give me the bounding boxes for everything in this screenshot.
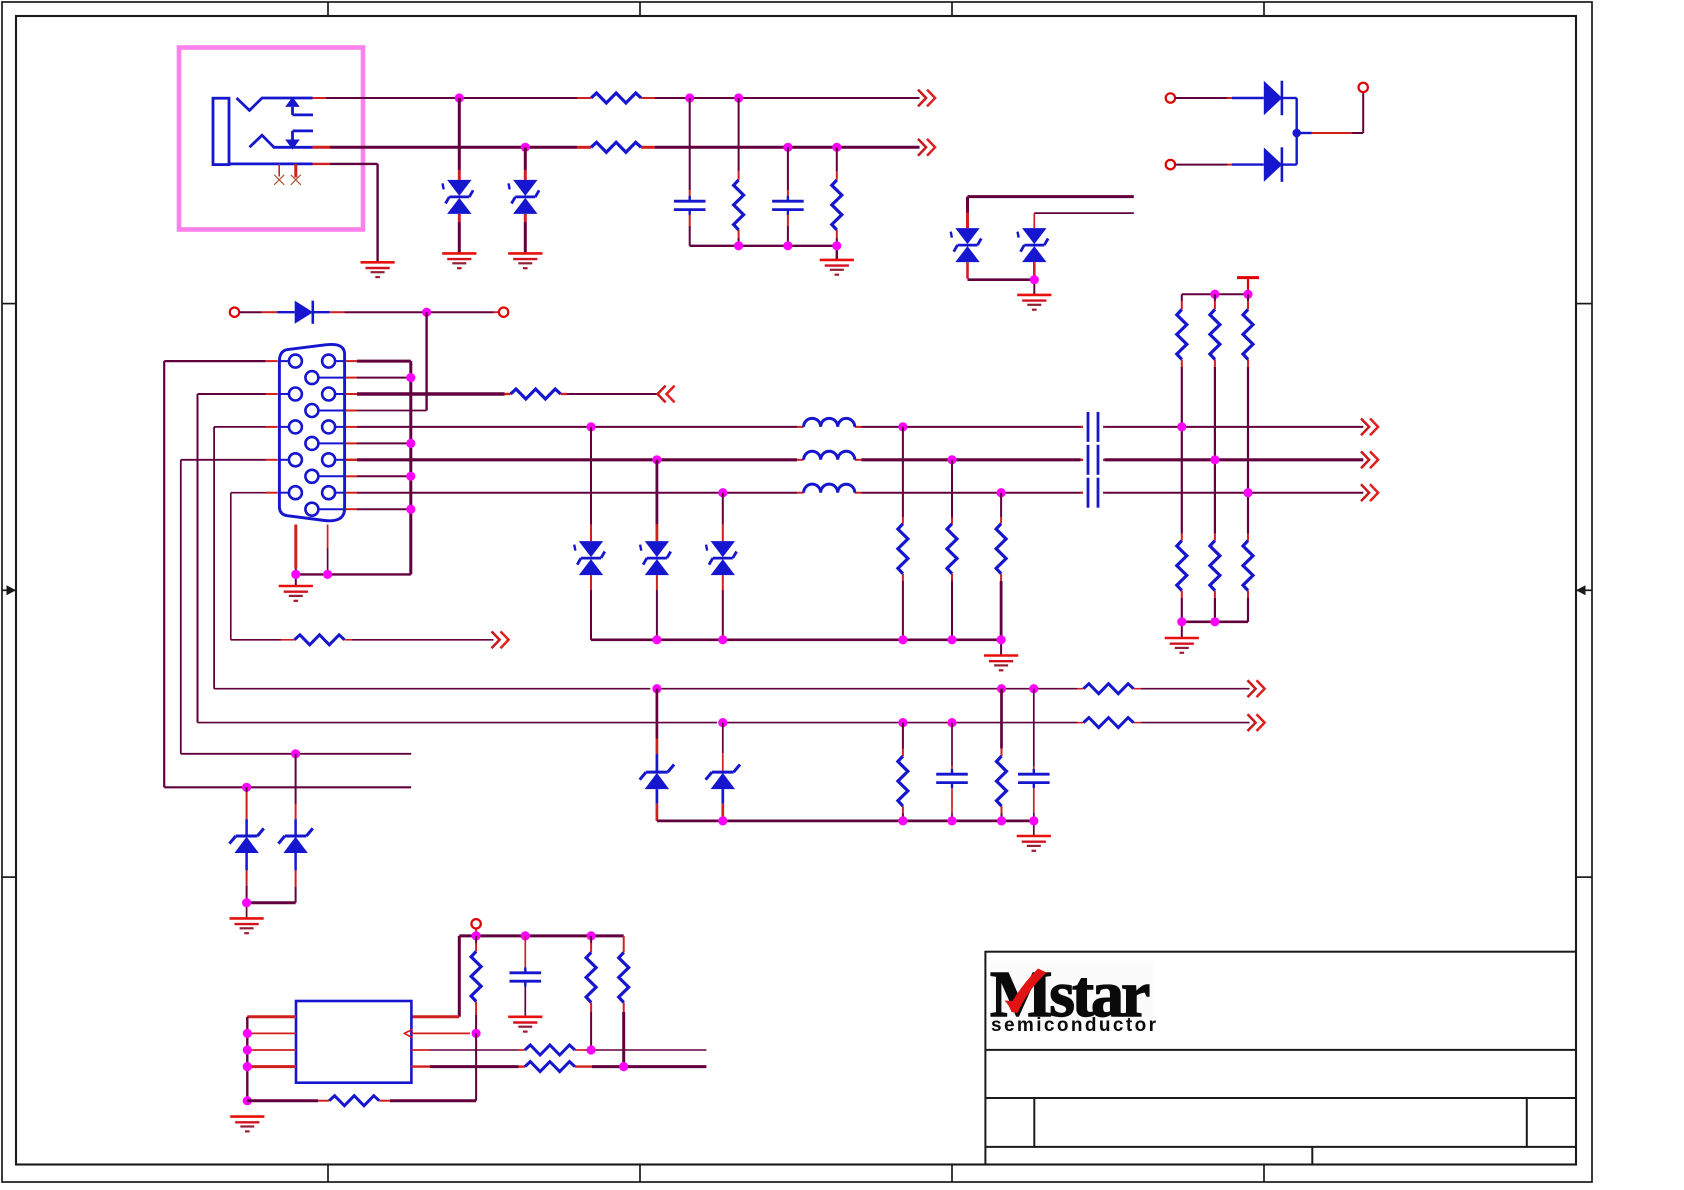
wire pin4 net — [181, 753, 411, 755]
wire jack sleeve to ground — [313, 164, 378, 262]
wire U1 pin3 left — [247, 1049, 296, 1051]
resistor R9 — [1210, 541, 1220, 591]
resistor R14 — [996, 524, 1006, 574]
wire P1 pin11 — [346, 361, 411, 574]
node jack tip junction — [455, 93, 464, 102]
wire RGB ground bus — [591, 640, 1001, 656]
wire P1 pin4 left — [181, 460, 278, 754]
resistor R1 — [591, 93, 641, 103]
node gnd bus R13 — [947, 635, 956, 644]
node D13 gnd — [242, 898, 251, 907]
wire to diode D6 — [1175, 164, 1264, 166]
node line3 D10 tap — [718, 488, 727, 497]
output port arrow pin5 net — [492, 631, 509, 648]
node shell gnd 2 — [323, 570, 332, 579]
wire sync ground bus — [657, 821, 1034, 836]
inductor L2 leads — [797, 459, 862, 461]
ground RGB bus — [984, 656, 1018, 671]
resistor R22 — [619, 952, 629, 1002]
capacitor C2 wire — [787, 147, 789, 246]
resistor R10 wires — [1247, 493, 1249, 622]
resistor R13 wires — [951, 460, 953, 640]
ground C8 — [508, 1017, 542, 1032]
wire P1 pin2 left — [198, 394, 278, 723]
TVS diode D9 — [640, 541, 671, 575]
resistor R19 — [997, 756, 1007, 806]
resistor R22 wires — [623, 936, 625, 1067]
node bus R3 — [734, 241, 743, 250]
node sync2 C6 tap — [947, 718, 956, 727]
TVS diode D8 wires — [590, 427, 592, 640]
TVS diode D2 — [509, 180, 540, 214]
resistor R3 wire — [738, 98, 740, 246]
ground VGA shell — [279, 586, 313, 601]
no-connect X on jack pin 2 — [291, 164, 301, 185]
node R20 bottom — [472, 1029, 481, 1038]
wire D5 cathode to node — [1282, 98, 1296, 133]
node pin7 gnd bus — [406, 439, 415, 448]
inductor L3 leads — [797, 492, 862, 494]
wire P1 pin8 gnd — [346, 475, 411, 477]
IC U1 pin marker — [404, 1029, 412, 1037]
zener diode D13 — [229, 828, 263, 853]
TVS diode D4 — [1018, 228, 1049, 262]
node pull-down bus R9 — [1210, 617, 1219, 626]
resistor R16 — [1084, 684, 1134, 694]
wire P1 pin9 — [346, 410, 427, 412]
node pin8 gnd bus — [406, 472, 415, 481]
node shell gnd 1 — [291, 570, 300, 579]
wire TVS D4 net — [1034, 213, 1134, 228]
capacitor C2 — [772, 196, 804, 215]
wire P1 pin5 left — [231, 493, 278, 640]
diode D5 — [1264, 81, 1282, 116]
node line1 D8 tap — [586, 422, 595, 431]
zener diode D14 — [278, 828, 312, 853]
IC U1 — [296, 1001, 411, 1083]
node R22 bottom — [619, 1062, 628, 1071]
output port arrow net1 — [918, 90, 935, 107]
resistor R5 wires — [1181, 294, 1183, 427]
node pull-up bus R7 — [1243, 290, 1252, 299]
node line2 R13 tap — [947, 455, 956, 464]
resistor R15 — [295, 635, 345, 645]
zener diode D11 — [640, 765, 674, 790]
capacitor C8 — [510, 968, 542, 987]
wire U1 gnd net bottom — [247, 1099, 476, 1102]
port crystal circuit — [471, 919, 480, 928]
resistor R8 wires — [1181, 427, 1183, 622]
node sync1 R19 tap — [997, 684, 1006, 693]
resistor R20 wires — [475, 936, 477, 1034]
wire U1 pin1 left — [247, 1017, 296, 1101]
resistor R1 leads — [577, 97, 655, 99]
wire U1 pin2 right — [411, 1032, 470, 1034]
node line2 R6 tap — [1210, 455, 1219, 464]
ground sync bus — [1017, 836, 1051, 851]
node bus R4 — [832, 241, 841, 250]
wire RGB line3 — [346, 492, 1364, 494]
node R21 bottom — [587, 1045, 596, 1054]
TVS diode D10 wires — [722, 493, 724, 640]
TVS diode D1 — [443, 180, 474, 214]
zener diode D14 wires — [295, 754, 297, 903]
wire R20 bottom to gnd net — [475, 1033, 477, 1100]
node gnd bus R12 — [898, 635, 907, 644]
node line2 D9 tap — [652, 455, 661, 464]
capacitor C5 — [1088, 478, 1098, 508]
node sync bus R19 — [997, 816, 1006, 825]
wire pin5 net R15 — [231, 639, 494, 641]
wire diode node to port — [1297, 92, 1364, 133]
capacitor C4 — [1088, 445, 1098, 475]
inductor L1 leads — [797, 426, 862, 428]
inductor L3 — [804, 484, 855, 493]
output port diode OR — [1359, 83, 1368, 92]
TVS diode D8 — [574, 541, 605, 575]
output port arrow line3 — [1361, 484, 1378, 501]
zener diode D12 wires — [722, 723, 724, 821]
zener diode D11 wires — [656, 689, 659, 821]
output port arrow net2 — [918, 139, 935, 156]
capacitor C6 — [936, 769, 968, 788]
capacitor C3 leads — [1081, 426, 1105, 428]
wire D6 cathode to node — [1282, 133, 1296, 165]
wire P1 pin7 gnd — [346, 442, 411, 444]
node sync bus C7 — [1029, 816, 1038, 825]
resistor R23 — [329, 1096, 379, 1106]
wire pin1 net — [164, 786, 411, 788]
node pin1 D13 tap — [242, 783, 251, 792]
node sync bus C6 — [947, 816, 956, 825]
node jack ring junction — [521, 143, 530, 152]
node line1 R12 tap — [898, 422, 907, 431]
node sync2 R18 tap — [898, 718, 907, 727]
diode D6 — [1264, 147, 1282, 182]
capacitor C7 wires — [1033, 689, 1035, 821]
no-connect X on jack pin — [274, 164, 284, 185]
wire TVS D3 net — [968, 197, 1134, 229]
ground jack sleeve — [361, 262, 395, 277]
capacitor C7 — [1018, 769, 1050, 788]
zener diode D12 — [706, 765, 740, 790]
diode D7 — [295, 301, 313, 324]
capacitor C8 wires — [524, 936, 526, 1017]
TVS diode D3 — [951, 228, 982, 262]
output port arrow line2 — [1361, 451, 1378, 468]
node pin4 D14 tap — [291, 749, 300, 758]
audio jack J1 — [213, 97, 313, 165]
node U1 pin2 left — [243, 1029, 252, 1038]
wire U1 pin4 left — [247, 1065, 296, 1068]
wire RGB line1 — [346, 426, 1364, 428]
resistor R24 — [525, 1045, 575, 1055]
resistor R17 — [1084, 718, 1134, 728]
title block — [985, 952, 1576, 1165]
wire D7 cathode — [313, 311, 499, 313]
wire P1 pin1 left — [164, 361, 278, 787]
resistor R10 — [1243, 541, 1253, 591]
wire pull-up bus — [1182, 293, 1248, 295]
wire jack tip net — [313, 97, 578, 99]
VGA connector P1 — [279, 344, 344, 520]
inductor L1 — [804, 418, 855, 427]
left border center arrow — [2, 585, 16, 595]
node pull-up bus R6 — [1210, 290, 1219, 299]
node gnd bus D10 — [718, 635, 727, 644]
resistor R11 — [511, 389, 561, 399]
resistor R20 — [471, 951, 481, 1001]
node bus R21 — [587, 931, 596, 940]
resistor R2 — [591, 142, 641, 152]
node line3 R14 tap — [997, 488, 1006, 497]
resistor R4 — [832, 180, 842, 230]
power rail symbol VCC — [1237, 278, 1259, 295]
diode D7 anode port — [230, 308, 239, 317]
resistor R19 wires — [1000, 689, 1003, 821]
node sync2 D12 tap — [718, 718, 727, 727]
wire R1 to output — [655, 97, 920, 99]
svg-text:semiconductor: semiconductor — [991, 1015, 1158, 1036]
wire port to D7 — [239, 311, 294, 313]
resistor R14 wires — [1000, 493, 1002, 640]
node sync bus R18 — [898, 816, 907, 825]
zener diode D13 wires — [246, 787, 248, 902]
node pin10 gnd bus — [406, 505, 415, 514]
resistor R12 — [898, 524, 908, 574]
node U1 pin3 left — [243, 1045, 252, 1054]
resistor R21 — [586, 952, 596, 1002]
node C1 tap — [685, 93, 694, 102]
node bus R20 — [472, 931, 481, 940]
resistor R9 wires — [1214, 460, 1216, 622]
capacitor C1 wire — [689, 98, 691, 246]
ground D2 — [508, 253, 542, 268]
TVS diode D10 — [706, 541, 737, 575]
wire sync line1 — [214, 688, 1249, 690]
node R4 tap — [832, 143, 841, 152]
wire D3 D4 to ground — [968, 262, 1035, 295]
resistor R18 wires — [902, 723, 904, 821]
node U1 pin4 left — [243, 1062, 252, 1071]
wire P1 pin10 gnd — [346, 508, 411, 510]
wire to diode D5 — [1175, 97, 1264, 99]
right border center arrow — [1576, 585, 1592, 595]
resistor R21 wires — [590, 936, 592, 1050]
wire pull-down bus — [1182, 622, 1248, 638]
wire jack ring net — [313, 146, 578, 149]
resistor R6 wires — [1214, 294, 1216, 460]
wire IC top bus — [411, 929, 623, 1017]
ground filter bus — [820, 260, 854, 275]
Mstar semiconductor logo — [990, 958, 1158, 1036]
pink highlight box around audio jack J1 — [179, 48, 363, 230]
node bus C2 — [783, 241, 792, 250]
ground pull-down bank — [1165, 638, 1199, 653]
TVS diode D1 wire — [458, 98, 461, 253]
node sync bus D12 — [718, 816, 727, 825]
resistor R4 wire — [836, 147, 838, 246]
wire P1 shell gnd — [296, 525, 411, 587]
capacitor C4 leads — [1081, 459, 1105, 461]
output port arrow line1 — [1361, 419, 1378, 436]
node bus C8 — [521, 931, 530, 940]
capacitor C6 wires — [951, 723, 953, 821]
node U1 gnd left — [243, 1096, 252, 1105]
node D3 D4 junction — [1030, 275, 1039, 284]
node sync1 C7 tap — [1029, 684, 1038, 693]
resistor R3 — [734, 180, 744, 230]
node line3 R7 tap — [1243, 488, 1252, 497]
capacitor C1 — [674, 196, 706, 215]
node line1 R5 tap — [1177, 422, 1186, 431]
output port arrow sync2 — [1248, 714, 1265, 731]
node D7 net junction — [422, 308, 431, 317]
wire P1 pin6 — [346, 377, 411, 379]
resistor R7 — [1243, 309, 1253, 359]
TVS diode D9 wires — [656, 460, 659, 640]
wire U1 pin2 left — [247, 1032, 296, 1034]
wire ground bus top-mid — [690, 246, 837, 260]
resistor R7 wires — [1247, 294, 1249, 493]
ground U1 — [230, 1117, 264, 1132]
wire D7 node down to pin9 — [425, 312, 427, 410]
port D7 net right — [499, 308, 508, 317]
resistor R8 — [1177, 541, 1187, 591]
resistor R2 leads — [577, 146, 655, 149]
TVS diode D2 wire — [524, 147, 527, 253]
node pin6 gnd bus — [406, 373, 415, 382]
capacitor C5 leads — [1081, 492, 1105, 494]
node sync1 D11 tap — [652, 684, 661, 693]
wire RGB line2 — [346, 459, 1364, 461]
resistor R12 wires — [902, 427, 904, 640]
input port D5 anode — [1166, 93, 1175, 102]
resistor R6 — [1210, 309, 1220, 359]
node gnd bus D9 — [652, 635, 661, 644]
resistor R5 — [1177, 309, 1187, 359]
wire P1 pin3 left — [214, 427, 278, 689]
node C2 tap — [783, 143, 792, 152]
wire D13 D14 gnd — [247, 903, 296, 919]
input port arrow DDC — [658, 386, 675, 403]
ground D3 D4 — [1017, 295, 1051, 310]
node diode OR junction — [1292, 129, 1301, 138]
inductor L2 — [804, 451, 855, 460]
ground D13 D14 — [230, 918, 264, 933]
resistor R25 — [525, 1062, 575, 1072]
capacitor C3 — [1088, 412, 1098, 442]
resistor R18 — [898, 756, 908, 806]
output port arrow sync1 — [1248, 680, 1265, 697]
wire U1 pin4 right line — [411, 1065, 706, 1067]
node gnd bus R14 — [997, 635, 1006, 644]
wire R2 to output — [655, 146, 920, 149]
ground D1 — [442, 253, 476, 268]
node pull-down bus R8 — [1177, 617, 1186, 626]
resistor R13 — [947, 524, 957, 574]
wire P1 pin12 to R11 — [346, 393, 657, 395]
wire sync line2 — [198, 722, 1250, 724]
input port D6 anode — [1166, 160, 1175, 169]
node R3 tap — [734, 93, 743, 102]
wire U1 pin3 right line — [411, 1049, 706, 1051]
